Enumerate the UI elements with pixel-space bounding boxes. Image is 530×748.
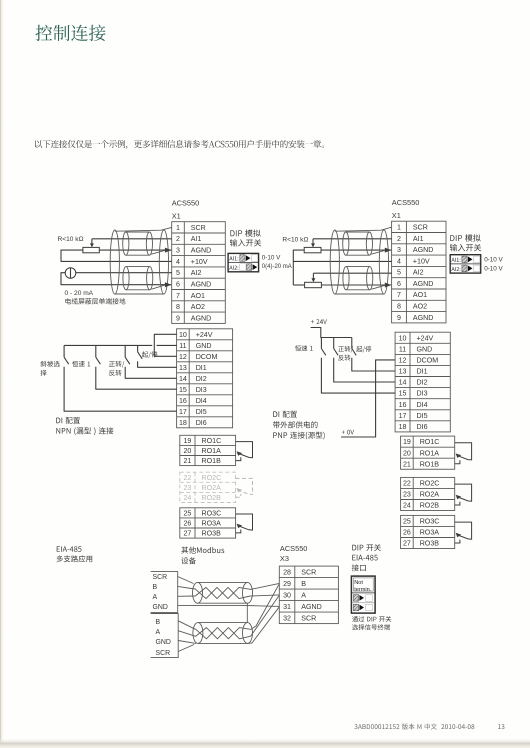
terminal block X1 (right) pins 10-18 [395, 332, 450, 432]
svg-text:RO2A: RO2A [420, 491, 440, 499]
svg-text:3: 3 [397, 246, 401, 254]
svg-text:12: 12 [179, 353, 187, 361]
svg-text:R<10 kΩ: R<10 kΩ [58, 236, 84, 243]
wire 0V rail to DCOM (pin 12 right) [341, 360, 395, 437]
svg-text:31: 31 [283, 603, 291, 611]
wire device2 SCR to cable2 shield [178, 645, 194, 652]
svg-text:DI2: DI2 [196, 375, 207, 383]
svg-text:23: 23 [403, 491, 411, 499]
svg-text:14: 14 [399, 379, 407, 387]
wire cable2 GND to X3 pin 31 [248, 607, 280, 644]
svg-text:13: 13 [399, 368, 407, 376]
wire shield link between cables [246, 603, 248, 622]
DIP switch S2 analog input config (right) [450, 255, 481, 273]
wire pot wiper to AI1 (pin 2) [92, 238, 172, 240]
wire device1 GND to X3 pin 31 [178, 605, 280, 606]
svg-text:24: 24 [183, 494, 191, 502]
svg-text:RO1B: RO1B [420, 460, 440, 468]
node DIP 模拟 输入开关 label (left) [230, 230, 260, 237]
svg-text:4: 4 [176, 258, 180, 266]
svg-text:RO3C: RO3C [420, 518, 440, 526]
svg-text:0(4)-20 mA: 0(4)-20 mA [262, 264, 292, 270]
svg-text:B: B [153, 584, 158, 591]
svg-text:GND: GND [417, 345, 433, 353]
svg-text:RO3A: RO3A [202, 520, 222, 528]
svg-text:DI4: DI4 [196, 397, 207, 405]
shielded cable inner pair 1 (right) [343, 232, 373, 255]
svg-text:ACS550: ACS550 [280, 544, 308, 553]
wire device2 GND along cable2 [178, 641, 196, 644]
svg-text:25: 25 [183, 510, 191, 518]
svg-text:DI3: DI3 [196, 386, 207, 394]
svg-text:26: 26 [403, 529, 411, 537]
svg-text:X1: X1 [172, 212, 181, 221]
twisted pair cable 2 shield [193, 623, 253, 644]
svg-text:18: 18 [399, 423, 407, 431]
svg-text:DI5: DI5 [196, 408, 207, 416]
relay contact RO3 (right) [455, 522, 472, 543]
wire source to AGND (pin 6) [61, 273, 171, 285]
svg-text:5: 5 [176, 269, 180, 277]
node 恒速1 label (right) [295, 345, 313, 351]
page left edge shadow [0, 0, 5, 748]
node 斜坡选择 label [40, 361, 59, 367]
svg-text:2: 2 [176, 235, 180, 243]
svg-text:A: A [301, 592, 306, 600]
switch 斜坡选择 (DI5) [64, 345, 69, 364]
svg-text:AO2: AO2 [191, 303, 205, 311]
svg-text:20: 20 [183, 447, 191, 455]
svg-text:X3: X3 [280, 554, 289, 563]
svg-text:6: 6 [176, 280, 180, 288]
wire device2 B into cable2 [178, 621, 195, 629]
svg-text:2: 2 [397, 235, 401, 243]
svg-text:termin.: termin. [354, 587, 372, 593]
svg-text:AGND: AGND [191, 280, 212, 288]
svg-text:SCR: SCR [156, 650, 171, 657]
wire device1 A into cable1 [178, 595, 195, 597]
svg-text:17: 17 [399, 412, 407, 420]
svg-text:21: 21 [403, 460, 411, 468]
svg-text:16: 16 [179, 397, 187, 405]
wire pot2 wiper to AI1 (pin 2) [313, 238, 392, 240]
node Modbus device 1 terminals [151, 572, 178, 613]
svg-text:11: 11 [179, 342, 186, 350]
node PNP 连接(源型) label [273, 432, 324, 440]
node DIP 模拟 输入开关 label (right) [450, 234, 480, 241]
svg-text:32: 32 [283, 615, 291, 623]
terminal block RO1 (left) pins 19-21 [180, 435, 236, 465]
node EIA-485 多支路应用 label [57, 546, 82, 552]
svg-text:0-10 V: 0-10 V [262, 254, 281, 261]
wire pot right to AGND (pin 3) [99, 249, 171, 251]
svg-text:0 - 20 mA: 0 - 20 mA [65, 290, 94, 297]
svg-text:ACS550: ACS550 [392, 198, 420, 207]
potentiometer R1 [83, 239, 99, 253]
svg-text:11: 11 [399, 345, 406, 353]
svg-text:23: 23 [183, 484, 191, 492]
wire pair2 screen drain to AGND pin 6 (right) [372, 285, 387, 289]
svg-text:14: 14 [179, 375, 187, 383]
svg-text:SCR: SCR [301, 569, 316, 577]
wire pot2 left to +10V rail [293, 250, 304, 285]
svg-text:19: 19 [183, 437, 191, 445]
svg-text:GND: GND [153, 604, 168, 611]
svg-text:RO2C: RO2C [420, 480, 440, 488]
wire pot2 right to AGND (pin 3) [321, 249, 391, 251]
node 起/停 label [142, 351, 157, 358]
relay contact RO1 (right) [455, 443, 472, 464]
wire source to AI2 (pin 5) [76, 272, 172, 274]
node DI 配置 label (right) [273, 411, 297, 418]
DIP switch S3 EIA-485 termination [351, 576, 375, 613]
svg-text:AI2: AI2 [191, 269, 202, 277]
svg-text:AI1: AI1 [191, 235, 202, 243]
shielded cable inner pair 2 (right) [343, 267, 373, 290]
svg-text:DI5: DI5 [417, 412, 428, 420]
wire +24V feed [311, 328, 352, 338]
shielded cable inner pair 2 (left) [123, 267, 153, 290]
potentiometer R2 (upper) [304, 239, 321, 253]
svg-text:RO3A: RO3A [420, 529, 440, 537]
svg-text:9: 9 [397, 314, 401, 322]
terminal block RO3 (right) pins 25-27 [401, 515, 455, 548]
svg-text:7: 7 [176, 292, 180, 300]
junction arrow at pin 3 [165, 248, 172, 253]
svg-text:ACS550: ACS550 [172, 199, 200, 208]
svg-text:0-10 V: 0-10 V [484, 256, 503, 263]
svg-text:Not: Not [354, 580, 363, 586]
node DIP 开关 EIA-485 接口 label [352, 544, 381, 551]
svg-text:22: 22 [403, 480, 411, 488]
wire cable1 A to X3 pin 30 [250, 595, 279, 596]
svg-text:8: 8 [176, 303, 180, 311]
relay contact RO2 (right) [455, 484, 472, 505]
svg-text:22: 22 [183, 474, 191, 482]
svg-text:RO3C: RO3C [202, 510, 222, 518]
wire pot3 wiper to AI2 (pin 5) [313, 272, 391, 274]
svg-text:29: 29 [283, 580, 291, 588]
relay contact RO2 (left) faded [236, 478, 253, 497]
shielded cable inner pair 1 (left) [123, 232, 153, 255]
node footer doc id [354, 724, 474, 730]
svg-text:RO2C: RO2C [202, 474, 222, 482]
svg-text:18: 18 [179, 419, 187, 427]
svg-text:8: 8 [397, 303, 401, 311]
svg-text:AGND: AGND [413, 246, 434, 254]
svg-text:R<10 kΩ: R<10 kΩ [282, 237, 308, 244]
svg-text:7: 7 [397, 291, 401, 299]
node +24V label [311, 319, 327, 324]
svg-text:26: 26 [183, 520, 191, 528]
potentiometer R3 (lower) [305, 273, 322, 287]
svg-text:X1: X1 [392, 211, 401, 220]
svg-text:27: 27 [183, 530, 191, 538]
wire GND bus segment A [64, 344, 152, 346]
node 正转/反转 label [109, 361, 124, 368]
svg-text:1: 1 [176, 224, 180, 232]
svg-text:RO3B: RO3B [420, 540, 440, 548]
svg-text:19: 19 [403, 438, 411, 446]
svg-text:A: A [156, 629, 161, 636]
switch 起/停 (DI1) [138, 345, 143, 358]
node 其他Modbus 设备 label [181, 547, 224, 554]
svg-text:25: 25 [403, 518, 411, 526]
svg-text:24: 24 [403, 502, 411, 510]
node 通过 DIP 开关 label [352, 616, 391, 622]
node intro text [35, 140, 324, 149]
wire cable2 A to X3 pin 30 [251, 595, 280, 636]
svg-text:15: 15 [179, 386, 187, 394]
svg-text:RO2B: RO2B [420, 502, 440, 510]
shielded cable outer screen (left) [110, 227, 171, 294]
wire pair2 screen drain to AGND pin 6 [152, 285, 167, 290]
svg-text:DCOM: DCOM [196, 353, 218, 361]
svg-text:9: 9 [176, 314, 180, 322]
svg-text:30: 30 [283, 592, 291, 600]
svg-text:DI2: DI2 [417, 379, 428, 387]
svg-text:GND: GND [196, 342, 212, 350]
svg-text:16: 16 [399, 401, 407, 409]
svg-text:A: A [153, 594, 158, 601]
wire DI3 route [96, 367, 177, 389]
wire DI5 route [64, 367, 177, 411]
node 正转/反转 label (right) [338, 346, 353, 353]
wire GND bus segment B to pin 11 [157, 344, 177, 346]
twisted pair zigzag cable1 [195, 587, 250, 598]
svg-text:12: 12 [399, 357, 407, 365]
junction arrow at pin 6 (right) [385, 283, 392, 288]
terminal block RO3 (left) pins 25-27 [180, 508, 236, 538]
node 选择信号终端 label [352, 624, 390, 630]
page bottom edge shadow [0, 738, 530, 748]
svg-text:27: 27 [403, 540, 411, 548]
terminal block X1 (left) pins 1-9 [172, 222, 226, 324]
svg-text:B: B [301, 580, 306, 588]
relay contact RO3 (left) [236, 514, 253, 533]
svg-text:RO2B: RO2B [202, 494, 222, 502]
junction arrow at pin 3 (right) [385, 248, 392, 253]
wire DI1 route (right) [352, 358, 395, 371]
node +0V label [342, 430, 354, 435]
svg-text:15: 15 [399, 390, 407, 398]
svg-text:DI1: DI1 [417, 368, 428, 376]
wire pot3 left to +10V rail [293, 284, 304, 286]
svg-text:3: 3 [176, 247, 180, 255]
svg-text:13: 13 [179, 364, 187, 372]
node Modbus device 2 terminals [151, 614, 179, 658]
wire pair1 screen drain to AGND pin 3 [151, 250, 166, 254]
terminal block RO2 (left) pins 22-24 faded [180, 472, 236, 502]
svg-text:5: 5 [397, 269, 401, 277]
svg-text:SCR: SCR [153, 574, 168, 581]
wire DI1 route [138, 361, 177, 367]
switch 正转/反转 (right DI2) [334, 338, 338, 356]
svg-text:+10V: +10V [413, 257, 430, 265]
svg-text:AGND: AGND [413, 280, 434, 288]
svg-text:AI2: AI2 [413, 269, 424, 277]
svg-text:RO1B: RO1B [202, 457, 222, 465]
svg-text:AGND: AGND [301, 603, 322, 611]
svg-text:21: 21 [183, 457, 191, 465]
node 带外部供电的 label [273, 421, 318, 428]
wire device1 SCR to cable1 shield [178, 577, 194, 584]
svg-text:AO1: AO1 [413, 291, 427, 299]
svg-text:RO1A: RO1A [202, 447, 222, 455]
twisted pair cable 1 shield [193, 582, 253, 603]
node title 控制连接 [36, 25, 106, 41]
svg-text:+24V: +24V [417, 334, 434, 342]
svg-text:+24V: +24V [196, 331, 213, 339]
svg-text:RO2A: RO2A [202, 484, 222, 492]
svg-text:RO1A: RO1A [420, 449, 440, 457]
svg-text:10: 10 [399, 334, 407, 342]
svg-text:DI4: DI4 [417, 401, 428, 409]
node 恒速1 label [72, 361, 90, 367]
junction arrow at pin 6 [165, 282, 172, 287]
terminal block X1 (left) pins 10-18 [177, 329, 233, 428]
current source transducer 0-20mA [65, 268, 76, 279]
svg-text:DI6: DI6 [417, 423, 428, 431]
relay contact RO1 (left) [236, 442, 253, 461]
terminal block X3 pins 28-32 [279, 566, 338, 624]
node DI 配置 label (left) [56, 417, 80, 424]
wire DI2 route (right) [334, 358, 395, 382]
svg-text:6: 6 [397, 280, 401, 288]
node footer page number [498, 724, 504, 729]
wire pair1 screen drain to AGND pin 3 (right) [371, 250, 386, 254]
shielded cable outer screen (right) [330, 227, 391, 294]
svg-text:DCOM: DCOM [417, 357, 439, 365]
wire device2 A into cable2 [178, 631, 195, 637]
node NPN (漏型) 连接 label [56, 427, 113, 435]
svg-text:AGND: AGND [191, 314, 212, 322]
svg-text:4: 4 [397, 257, 401, 265]
svg-text:SCR: SCR [301, 615, 316, 623]
wire DI2 route [125, 367, 176, 379]
twisted pair zigzag cable2 [195, 628, 250, 639]
terminal block X1 (right) pins 1-9 [392, 221, 446, 323]
svg-text:AGND: AGND [191, 247, 212, 255]
wire pot3 right to AGND (pin 6) [321, 284, 391, 286]
svg-text:RO1C: RO1C [202, 437, 222, 445]
wire DI3 route (right) [321, 358, 395, 393]
switch 恒速1 (right DI3) [321, 338, 325, 356]
terminal block RO1 (right) pins 19-21 [401, 436, 455, 469]
svg-text:B: B [156, 619, 161, 626]
svg-text:DI3: DI3 [417, 390, 428, 398]
node 电缆屏蔽层单端接地 label [65, 298, 125, 304]
svg-text:17: 17 [179, 408, 187, 416]
wire +24V (10) to DCOM (12) jumper [154, 334, 176, 356]
terminal block RO2 (right) pins 22-24 [401, 477, 455, 510]
node 起/停 label (right) [356, 346, 371, 353]
switch 正转/反转 (DI2) [125, 345, 130, 364]
svg-text:DI6: DI6 [196, 419, 207, 427]
svg-text:0-10 V: 0-10 V [484, 265, 503, 272]
wire cable2 B to X3 pin 29 [251, 584, 280, 630]
svg-text:28: 28 [283, 569, 291, 577]
svg-text:SCR: SCR [413, 223, 428, 231]
svg-text:AO1: AO1 [191, 292, 205, 300]
svg-text:RO3B: RO3B [202, 530, 222, 538]
svg-text:+10V: +10V [191, 258, 208, 266]
svg-text:SCR: SCR [191, 224, 206, 232]
wire +10V rail to pin 4 [293, 260, 391, 262]
svg-text:1: 1 [397, 223, 401, 231]
svg-text:AO2: AO2 [413, 303, 427, 311]
wire device1 B into cable1 [178, 586, 195, 589]
svg-text:GND: GND [156, 639, 171, 646]
svg-text:AI1: AI1 [413, 235, 424, 243]
wire cable1 B to X3 pin 29 [250, 583, 279, 589]
wire pot left to +10V (pin 4) [61, 250, 172, 261]
switch 恒速1 (DI3) [96, 345, 101, 364]
svg-text:10: 10 [179, 331, 187, 339]
switch 起/停 (right DI1) [352, 338, 356, 356]
svg-text:20: 20 [403, 449, 411, 457]
DIP switch S1 analog input config (left) [228, 253, 259, 271]
svg-text:RO1C: RO1C [420, 438, 440, 446]
svg-text:AGND: AGND [413, 314, 434, 322]
svg-text:DI1: DI1 [196, 364, 207, 372]
